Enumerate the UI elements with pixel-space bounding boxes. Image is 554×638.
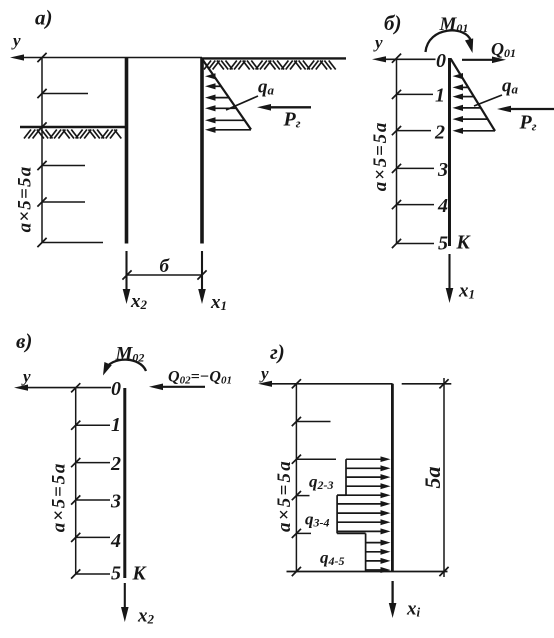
svg-text:а): а) bbox=[35, 6, 53, 30]
dim tick 3 left (fig g) bbox=[292, 491, 301, 500]
x1 axis arrow (fig a) bbox=[201, 251, 203, 296]
svg-text:К: К bbox=[132, 564, 148, 585]
x2 axis arrow (fig v) bbox=[124, 583, 126, 614]
force P_r arrow (fig a) bbox=[265, 106, 311, 108]
dim tick 3 (fig b) bbox=[392, 164, 401, 173]
step line between q2-3 and q3-4 (fig g) bbox=[337, 494, 346, 496]
dim tick bottom right (fig g) bbox=[439, 567, 448, 576]
y axis arrow (fig g) bbox=[266, 383, 393, 385]
svg-text:5: 5 bbox=[111, 563, 121, 585]
extension line 3 (fig g) bbox=[296, 495, 309, 497]
extension line 4 (fig g) bbox=[296, 532, 311, 534]
dim tick 2 (fig a) bbox=[37, 122, 46, 131]
svg-text:0: 0 bbox=[436, 50, 446, 72]
dim tick 1 (fig a) bbox=[37, 89, 46, 98]
dim tick 5 (fig a) bbox=[37, 238, 46, 247]
extension line 1 (fig b) bbox=[397, 93, 434, 95]
pile (fig g) bbox=[391, 384, 394, 572]
load arrows q4-5 (fig g) bbox=[366, 540, 391, 573]
extension line 1 (fig v) bbox=[76, 424, 110, 426]
force P_r arrow (fig b) bbox=[505, 108, 554, 110]
load triangle hypotenuse (fig a) bbox=[203, 60, 252, 130]
svg-text:а×5=5а: а×5=5а bbox=[274, 459, 295, 532]
dim tick 4 (fig b) bbox=[392, 200, 401, 209]
y axis arrow (fig b) bbox=[380, 58, 436, 60]
extension line 2 (fig g) bbox=[296, 458, 336, 460]
load arrows q_a (fig b) bbox=[453, 73, 488, 122]
load block q2-3 left edge (fig g) bbox=[345, 459, 347, 495]
svg-text:5: 5 bbox=[438, 233, 448, 255]
svg-text:К: К bbox=[456, 233, 472, 254]
dim tick 5 (fig b) bbox=[392, 239, 401, 248]
dimension line left (fig v) bbox=[75, 388, 77, 574]
dimension line left (fig b) bbox=[396, 58, 398, 243]
svg-text:1: 1 bbox=[435, 85, 445, 107]
extension line 3 (fig v) bbox=[76, 499, 110, 501]
pointer line q_a (fig b) bbox=[474, 95, 502, 106]
svg-text:а×5=5а: а×5=5а bbox=[15, 166, 36, 233]
dim tick 4 (fig a) bbox=[37, 197, 46, 206]
dim tick 2 (fig b) bbox=[392, 126, 401, 135]
dimension line left (fig g) bbox=[295, 384, 297, 572]
extension line 5 (fig v) bbox=[76, 573, 110, 575]
load triangle bottom arrow (fig b) bbox=[458, 130, 495, 132]
svg-text:а×5=5а: а×5=5а bbox=[370, 121, 391, 191]
ground hatching top right (fig a) bbox=[204, 61, 336, 70]
x1 axis arrow (fig b) bbox=[448, 254, 450, 295]
load block q4-5 left edge (fig g) bbox=[365, 533, 367, 571]
dim tick 5 (fig v) bbox=[71, 569, 80, 578]
dim tick 5 left (fig g) bbox=[292, 567, 301, 576]
y axis arrow (fig a) bbox=[18, 57, 202, 59]
moment arc M02 (fig v) bbox=[105, 360, 146, 371]
pointer line q_a (fig a) bbox=[226, 96, 258, 110]
moment arc M01 (fig b) bbox=[426, 30, 472, 52]
svg-text:0: 0 bbox=[111, 378, 121, 400]
svg-text:4: 4 bbox=[110, 530, 121, 552]
svg-text:г): г) bbox=[270, 340, 285, 364]
x2 axis arrow (fig a) bbox=[125, 251, 127, 296]
svg-text:у: у bbox=[373, 33, 383, 52]
svg-text:б: б bbox=[160, 256, 171, 277]
width dimension line b (fig a) bbox=[127, 274, 202, 276]
load block q3-4 left edge (fig g) bbox=[336, 495, 338, 533]
dim tick 0 (fig a) bbox=[37, 53, 46, 62]
extension line 2 (fig b) bbox=[397, 130, 432, 132]
ground surface line top right (fig a) bbox=[201, 57, 346, 59]
load arrows q3-4 (fig g) bbox=[337, 492, 390, 534]
pile (fig v) bbox=[123, 388, 126, 578]
dim tick 1 (fig v) bbox=[71, 421, 80, 430]
load arrows q2-3 (fig g) bbox=[346, 456, 391, 489]
dim tick 1 left (fig g) bbox=[292, 417, 301, 426]
ground hatching lower left (fig a) bbox=[24, 130, 121, 139]
svg-text:2: 2 bbox=[110, 453, 121, 475]
svg-text:3: 3 bbox=[110, 491, 121, 513]
svg-text:5а: 5а bbox=[420, 467, 445, 489]
load triangle hypotenuse (fig b) bbox=[451, 59, 496, 132]
dim tick 4 left (fig g) bbox=[292, 529, 301, 538]
y axis arrow (fig v) bbox=[22, 387, 111, 389]
extension line 1 (fig g) bbox=[296, 421, 330, 423]
extension line 3 (fig a) bbox=[42, 165, 85, 167]
extension line 2 (fig v) bbox=[76, 462, 110, 464]
svg-text:2: 2 bbox=[434, 122, 445, 144]
svg-text:4: 4 bbox=[437, 195, 448, 217]
xi axis arrow (fig g) bbox=[391, 581, 393, 610]
dim tick 4 (fig v) bbox=[71, 533, 80, 542]
dim tick 3 (fig a) bbox=[37, 161, 46, 170]
svg-text:а×5=5а: а×5=5а bbox=[49, 462, 70, 532]
extension line 3 (fig b) bbox=[397, 167, 435, 169]
width dim tick right (fig a) bbox=[197, 270, 206, 279]
top line right segment (fig g) bbox=[402, 383, 452, 385]
extension line 1 (fig a) bbox=[42, 93, 88, 95]
svg-text:3: 3 bbox=[437, 159, 448, 181]
extension line 4 (fig a) bbox=[42, 201, 85, 203]
width dim tick left (fig a) bbox=[122, 270, 131, 279]
svg-text:у: у bbox=[259, 364, 269, 383]
dim tick 0 (fig v) bbox=[71, 383, 80, 392]
extension line 4 (fig v) bbox=[76, 536, 110, 538]
left wall (fig a) bbox=[125, 58, 129, 244]
step line between q3-4 and q4-5 (fig g) bbox=[337, 532, 366, 534]
extension line 5 (fig a) bbox=[42, 242, 103, 244]
dim tick 1 (fig b) bbox=[392, 90, 401, 99]
extension line 4 (fig b) bbox=[397, 204, 435, 206]
dim tick 0 (fig b) bbox=[392, 54, 401, 63]
dim tick top right (fig g) bbox=[439, 379, 448, 388]
dimension line left (fig a) bbox=[41, 58, 43, 243]
dim tick 2 (fig v) bbox=[71, 458, 80, 467]
force Q02 arrow (fig v) bbox=[157, 386, 205, 388]
right wall (fig a) bbox=[200, 58, 204, 244]
dim tick 2 left (fig g) bbox=[292, 455, 301, 464]
dim tick 0 left (fig g) bbox=[292, 379, 301, 388]
svg-text:у: у bbox=[21, 367, 31, 386]
load triangle bottom arrow (fig a) bbox=[211, 129, 251, 131]
load arrows q_a (fig a) bbox=[205, 73, 245, 123]
force Q01 arrow (fig b) bbox=[462, 59, 498, 61]
extension line 5 (fig b) bbox=[397, 243, 435, 245]
svg-text:у: у bbox=[11, 31, 21, 50]
svg-text:б): б) bbox=[384, 11, 401, 35]
dimension line right 5a (fig g) bbox=[443, 378, 445, 577]
dim tick 3 (fig v) bbox=[71, 495, 80, 504]
svg-text:1: 1 bbox=[111, 414, 121, 436]
pile (fig b) bbox=[448, 58, 451, 246]
lower ground surface line (fig a) bbox=[20, 126, 125, 129]
bottom ground line (fig g) bbox=[287, 571, 448, 573]
svg-text:в): в) bbox=[16, 329, 32, 353]
